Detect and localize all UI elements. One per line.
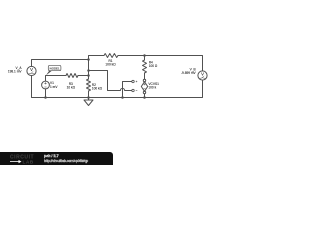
voltmeter V_B internals <box>200 72 206 79</box>
voltmeter V_A <box>27 66 36 75</box>
VCVS1 control terminals <box>132 80 134 82</box>
voltage source V1 <box>42 81 50 89</box>
resistor R3 <box>66 74 78 78</box>
wire R3 to node <box>78 75 89 77</box>
wire V_A top lead <box>32 60 89 67</box>
svg-text:http://circuitlab.com/cp36bfqp: http://circuitlab.com/cp36bfqp <box>44 159 88 163</box>
svg-text:1 mV: 1 mV <box>50 85 58 89</box>
svg-text:100 kΩ: 100 kΩ <box>92 87 103 91</box>
VCVS1 polarity <box>136 81 146 91</box>
VCVS1 <box>143 79 145 81</box>
resistor R4 <box>143 60 147 73</box>
wire node column <box>88 60 90 80</box>
svg-text:198.1 mV: 198.1 mV <box>8 70 23 74</box>
svg-text:-9.899 mV: -9.899 mV <box>181 71 197 75</box>
svg-text:NODE1: NODE1 <box>50 66 60 70</box>
wire hop over x122 <box>119 88 132 90</box>
svg-text:100 k: 100 k <box>148 85 156 89</box>
CircuitLab logo band <box>0 152 113 165</box>
resistor R2 <box>87 79 91 91</box>
wire V1 top lead <box>46 76 67 82</box>
wire R2 to ground rail <box>88 91 90 100</box>
svg-text:10 kΩ: 10 kΩ <box>67 85 76 89</box>
wire V1 bottom lead <box>45 89 47 98</box>
wire VCVS control minus run <box>89 71 119 91</box>
svg-text:100 kΩ: 100 kΩ <box>105 63 116 67</box>
flag NODE1 <box>46 65 61 75</box>
svg-text:100 Ω: 100 Ω <box>149 64 158 68</box>
voltmeter V_B <box>198 71 207 80</box>
ground <box>84 100 93 106</box>
voltmeter V_A internals <box>29 67 35 74</box>
wire R4 top lead <box>144 56 146 61</box>
svg-text:V: V <box>30 67 33 72</box>
wire VCVS bottom lead <box>144 94 146 98</box>
wire VCVS control plus to ground <box>123 82 132 98</box>
wire bottom rail <box>46 80 203 97</box>
svg-text:psh / IL7: psh / IL7 <box>44 154 59 158</box>
wire V_A bottom lead <box>32 76 46 98</box>
junction dots <box>44 54 146 99</box>
wire R1 to right corner <box>118 56 203 71</box>
svg-text:V: V <box>201 72 204 77</box>
V1 polarity <box>44 82 46 87</box>
resistor R1 <box>104 54 118 58</box>
svg-text:LAB: LAB <box>23 159 34 165</box>
wire top rail left corner <box>89 56 105 60</box>
wire R4 to VCVS <box>144 73 146 79</box>
